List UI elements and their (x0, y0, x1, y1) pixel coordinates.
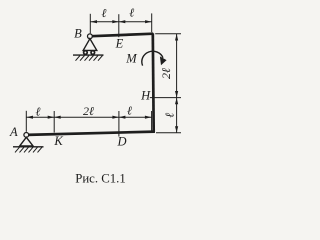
dimension line top (B to corner) (90, 21, 151, 23)
arrowheads bottom dimension (27, 116, 152, 119)
support B triangle (83, 39, 97, 51)
svg-text:A: A (9, 125, 18, 139)
svg-text:M: M (125, 52, 137, 66)
svg-text:K: K (53, 134, 63, 148)
dimension line bottom (A to corner) (26, 116, 151, 118)
dimension extension line at A (25, 111, 27, 132)
svg-text:H: H (140, 89, 151, 103)
support B rollers (84, 51, 88, 55)
svg-text:ℓ: ℓ (163, 113, 177, 118)
svg-text:ℓ: ℓ (127, 104, 132, 118)
svg-text:ℓ: ℓ (129, 5, 134, 19)
support B hatching (76, 56, 103, 61)
support B ground line (73, 54, 104, 56)
support A triangle (20, 137, 33, 146)
dimension line right (vertical) (176, 34, 178, 133)
dimension extension line at E (118, 14, 120, 37)
moment M arc (142, 51, 163, 65)
wire: vertical bar corner to bottom corner (151, 33, 155, 132)
svg-text:D: D (116, 135, 126, 149)
support A ground line (13, 146, 44, 148)
svg-text:B: B (74, 27, 82, 41)
dimension extension line at top corner (151, 13, 153, 32)
svg-text:2ℓ: 2ℓ (159, 68, 173, 79)
svg-text:ℓ: ℓ (102, 6, 107, 20)
svg-text:Рис. С1.1: Рис. С1.1 (75, 172, 126, 186)
extension line right at top corner (155, 33, 181, 35)
support A hatching (15, 147, 42, 152)
arrowheads right dimension (175, 34, 178, 133)
support A (pin) : pin circle (24, 133, 29, 138)
extension line right at bottom corner (156, 132, 181, 134)
extension line right at H (150, 97, 181, 99)
dimension extension line at K (53, 111, 55, 133)
svg-text:E: E (115, 37, 124, 51)
wire: bottom bar A to corner (27, 132, 155, 135)
dimension extension line at B (89, 14, 91, 34)
arrowheads top dimension (91, 20, 152, 23)
moment M arrowhead (160, 56, 167, 65)
dimension extension line at bottom corner (151, 111, 153, 131)
svg-text:ℓ: ℓ (36, 105, 41, 119)
support B (roller) : pin circle (88, 34, 93, 39)
svg-text:2ℓ: 2ℓ (83, 104, 94, 118)
wire: top bar B to corner (92, 34, 154, 37)
dimension extension line at D (118, 111, 120, 137)
